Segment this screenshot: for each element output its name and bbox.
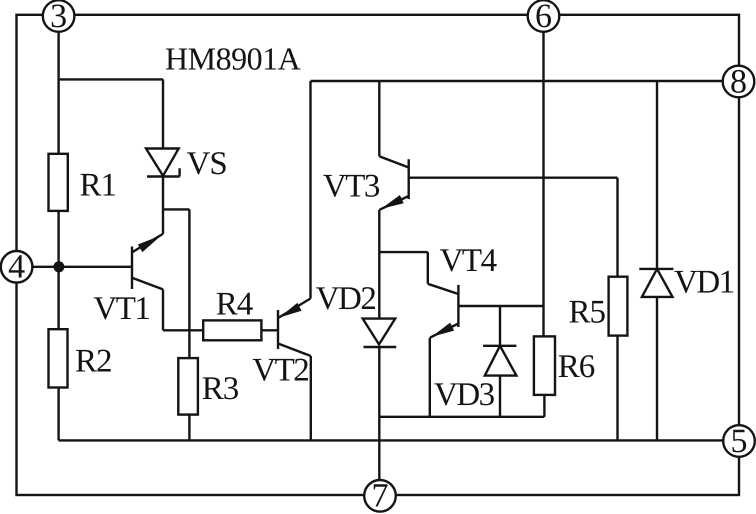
wire VD1 top lead [656, 81, 658, 269]
wire R1 bottom through node to R2 [57, 211, 59, 329]
wire pin3 down to R1 [57, 32, 59, 154]
svg-text:4: 4 [8, 249, 25, 286]
wire bottom rail [59, 439, 724, 441]
svg-text:VT4: VT4 [440, 243, 497, 279]
pin 3 [43, 0, 75, 32]
svg-text:VT3: VT3 [323, 169, 380, 205]
pin 6 [528, 0, 560, 32]
pin 5 [723, 425, 755, 457]
svg-text:VT2: VT2 [252, 353, 308, 389]
svg-text:VT1: VT1 [93, 291, 149, 327]
svg-text:R1: R1 [80, 168, 117, 204]
svg-text:3: 3 [50, 0, 67, 35]
diode VD3 [483, 346, 516, 376]
wire VS cathode down to VT1 emitter [162, 176, 164, 234]
resistor R4 [203, 320, 261, 340]
wire VT3 base to R5 [409, 176, 618, 178]
resistor R3 [178, 358, 198, 415]
wire R6 bottom [543, 395, 545, 417]
svg-text:7: 7 [372, 478, 389, 514]
svg-text:R4: R4 [216, 287, 253, 323]
wire VT1 collector to R4 [163, 329, 203, 331]
wire top rail to pin8 [311, 80, 723, 82]
transistor VT4 [428, 284, 459, 338]
wire branch VS node to R3 line [163, 209, 189, 358]
wire branch to VT4 collector [379, 252, 428, 284]
wire mid vertical VT3 emitter to VD2 [378, 210, 380, 319]
svg-text:VD2: VD2 [316, 281, 376, 317]
transistor VT1 [132, 234, 163, 290]
svg-text:R2: R2 [75, 344, 112, 380]
svg-text:6: 6 [535, 0, 552, 35]
wire VT1 collector drop [162, 289, 164, 330]
pin 7 [364, 480, 396, 512]
transistor VT2 [278, 299, 311, 357]
wire top-left branch to VS [59, 78, 163, 80]
wire R4 to VT2 base [261, 329, 278, 331]
diode VD1 [639, 269, 673, 297]
wire VT4 emitter drop [429, 338, 431, 417]
wire VD1 bottom lead [656, 297, 658, 441]
wire pin6 down to R6 [542, 32, 544, 337]
wire R5 bottom [616, 336, 618, 441]
pin 8 [723, 66, 755, 98]
wire VD2 to pin7 [378, 347, 380, 480]
resistor R6 [534, 336, 555, 395]
wire VT2 emitter up to rail [309, 81, 311, 299]
wire lower branch rail [379, 416, 544, 418]
svg-text:HM8901A: HM8901A [165, 40, 301, 76]
svg-text:VD3: VD3 [434, 377, 495, 413]
svg-text:VS: VS [187, 146, 227, 182]
wire VD3 top lead [499, 306, 501, 346]
resistor R2 [49, 329, 68, 387]
wire R3 bottom to rail [188, 415, 190, 441]
resistor R1 [49, 154, 68, 211]
diode VD2 [363, 319, 397, 347]
wire R5 top lead [616, 178, 618, 277]
diode VS (zener) [146, 149, 180, 177]
node junction dot [53, 261, 64, 272]
wire VS top lead [162, 79, 164, 148]
wire pin4 to VT1 base [33, 266, 133, 268]
wire VT4 base to pin6 line [458, 305, 543, 307]
svg-text:VD1: VD1 [674, 265, 734, 301]
pin 4 [1, 251, 33, 283]
wire R2 bottom to ground rail corner [57, 388, 59, 441]
wire VD3 bottom lead [499, 376, 501, 417]
svg-text:5: 5 [731, 423, 748, 460]
resistor R5 [609, 277, 628, 336]
transistor VT3 [379, 156, 408, 210]
svg-text:R5: R5 [569, 295, 606, 331]
wire mid vertical from rail to VT3 [378, 81, 380, 156]
svg-text:8: 8 [730, 63, 747, 100]
svg-text:R3: R3 [202, 371, 239, 407]
svg-text:R6: R6 [558, 349, 595, 385]
wire VT2 collector down to rail [310, 356, 312, 440]
